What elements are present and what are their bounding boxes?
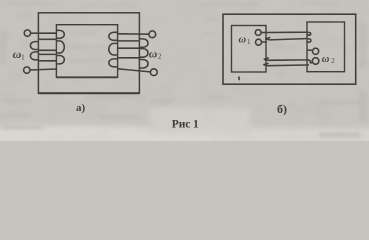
- caption a): [76, 102, 86, 114]
- wire stub from terminal 2 w1 (b): [262, 41, 267, 43]
- wire crossings w2: [118, 41, 140, 58]
- core a) outer edge: [38, 13, 139, 93]
- scan grain: [0, 0, 369, 141]
- wire lead1 w2: [118, 33, 149, 35]
- core b) right limb block: [307, 22, 345, 72]
- terminal 2 of w2 (b): [312, 58, 319, 65]
- label w1 (b): [239, 35, 252, 47]
- core a) outer bottom edge: [38, 92, 139, 94]
- wire 3 between limbs (b): [264, 58, 313, 63]
- caption b): [277, 102, 287, 116]
- wire lead2 w2: [118, 69, 151, 72]
- wire stub terminal 1 w2 (b): [307, 49, 312, 52]
- wire lead1 w1: [31, 32, 57, 34]
- terminal top-right of winding w2: [149, 31, 156, 38]
- winding w2 outer turns: [140, 39, 149, 68]
- winding w1 outer turns: [30, 42, 38, 60]
- wire 1 between limbs (b): [267, 32, 311, 35]
- terminal top-left of winding w1: [24, 30, 30, 36]
- stray mark: [238, 77, 241, 81]
- winding w1 inner turns: [56, 30, 64, 64]
- core a) window bottom edge: [56, 76, 117, 78]
- core b) left limb block: [232, 26, 267, 73]
- core b) outer edge: [223, 14, 356, 84]
- terminal bottom-right of winding w2: [150, 69, 157, 76]
- terminal 1 of w2 (b): [313, 48, 319, 54]
- terminal bottom-left of winding w1: [24, 67, 30, 73]
- wire stub from terminal 1 w1 (b): [261, 32, 267, 34]
- label w2: [149, 48, 162, 60]
- wire lead2 w1: [30, 69, 56, 70]
- wire crossings w1: [38, 39, 56, 61]
- figure caption: [172, 118, 199, 130]
- wire 4 between limbs (b): [263, 63, 309, 65]
- paper background: [0, 0, 369, 141]
- wire 2 between limbs (b): [265, 37, 311, 42]
- winding w2 inner turns: [109, 32, 118, 67]
- core a) window inner edge: [56, 25, 117, 78]
- ghost print-through rows: [0, 2, 367, 137]
- terminal 2 of w1 (b): [256, 39, 262, 45]
- label w1: [13, 47, 25, 61]
- terminal 1 of w1 (b): [255, 30, 261, 36]
- label w2 (b): [322, 54, 336, 65]
